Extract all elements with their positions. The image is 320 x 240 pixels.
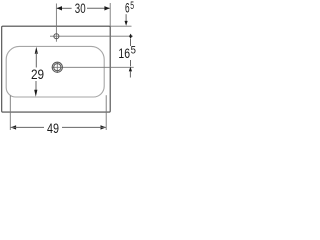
right edge top extension line — [109, 3, 111, 26]
dim 16.5 tail line below arrow — [129, 71, 131, 77]
tap hole circle — [54, 34, 59, 39]
dim 49 line left segment — [11, 126, 44, 128]
dim 30 left arrow — [57, 6, 62, 10]
dim 29 line upper segment — [35, 52, 37, 68]
svg-text:5: 5 — [130, 0, 134, 12]
svg-text:5: 5 — [131, 45, 136, 57]
dim 29 up arrow — [35, 47, 38, 54]
top edge right extension line — [110, 25, 131, 27]
dim 49 right extension line — [105, 95, 107, 130]
dim 6.5 leader line — [125, 14, 127, 21]
svg-text:49: 49 — [47, 121, 59, 137]
dim 16.5 up arrow — [129, 67, 132, 72]
drain vertical crosshair — [56, 62, 58, 73]
tap hole horizontal extension line — [50, 35, 133, 37]
dim 49 line right segment — [62, 126, 106, 128]
dim 30 line right segment — [87, 7, 110, 9]
svg-text:30: 30 — [75, 1, 86, 17]
dim 29 line lower segment — [35, 81, 37, 92]
dim 16.5 line lower segment — [130, 60, 132, 66]
drain horizontal extension line — [52, 66, 134, 68]
svg-text:29: 29 — [31, 67, 44, 83]
dim 30 right arrow — [104, 6, 109, 10]
dim 30 line left segment — [57, 7, 72, 9]
dim 29 down arrow — [34, 90, 37, 97]
dim 49 left extension line — [9, 96, 11, 131]
svg-text:16: 16 — [118, 46, 130, 62]
dim 49 left arrow — [11, 125, 17, 129]
diamond arrows at tap line — [129, 34, 132, 39]
drain outer circle — [52, 62, 62, 72]
inner bowl rounded outline — [6, 46, 104, 97]
dim 49 right arrow — [101, 125, 107, 129]
basin outer rectangle — [2, 26, 111, 112]
dim 16.5 line upper segment — [130, 39, 132, 46]
tap hole vertical extension line — [55, 4, 57, 42]
drain inner circle — [54, 64, 61, 71]
dim 6.5 down arrow — [125, 21, 128, 26]
